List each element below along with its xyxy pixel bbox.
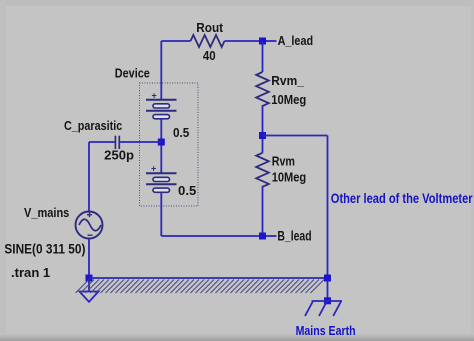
value 0.5 (top battery) (173, 125, 189, 140)
voltage source V_mains (sine) (76, 212, 103, 239)
directive SINE(0 311 50) (4, 241, 85, 256)
svg-text:C_parasitic: C_parasitic (64, 118, 122, 133)
value 10Meg (Rvm_) (271, 92, 306, 107)
svg-text:SINE(0 311 50): SINE(0 311 50) (4, 241, 85, 256)
svg-text:.tran 1: .tran 1 (11, 265, 50, 280)
svg-text:Rout: Rout (196, 20, 223, 35)
svg-text:250p: 250p (104, 148, 134, 163)
ground (80, 282, 99, 302)
node junction (voltmeter wire to earth bar) (324, 275, 331, 282)
node junction (mains earth) (324, 297, 331, 304)
svg-text:10Meg: 10Meg (272, 170, 307, 185)
wire (left vertical into Device) (160, 41, 162, 100)
value 250p (104, 148, 134, 163)
earth symbol (Mains Earth) (305, 301, 342, 316)
label A_lead (278, 33, 314, 48)
svg-text:Device: Device (115, 66, 150, 81)
svg-text:Other lead of the Voltmeter: Other lead of the Voltmeter (331, 191, 473, 206)
svg-text:+: + (151, 164, 156, 174)
wire (B_lead label stub) (266, 235, 277, 237)
node junction (between Rvm_ and Rvm) (259, 132, 266, 139)
wire (capacitor branch) (89, 142, 161, 212)
wire (earth bar top line) (89, 277, 328, 279)
device dotted box (140, 83, 199, 206)
wire (Device bottom to B_lead) (161, 192, 262, 236)
svg-text:Mains Earth: Mains Earth (296, 323, 356, 338)
resistor Rvm (256, 153, 269, 187)
svg-text:Rvm: Rvm (272, 153, 295, 168)
wire (voltmeter lead) (263, 136, 328, 301)
comment text: Mains Earth (296, 323, 356, 338)
svg-text:V_mains: V_mains (24, 205, 69, 220)
value 10Meg (Rvm) (272, 170, 307, 185)
capacitor C_parasitic (115, 136, 119, 149)
battery V1 (top cell of Device) (146, 91, 177, 119)
directive .tran 1 (11, 265, 50, 280)
label B_lead (277, 228, 311, 243)
svg-text:B_lead: B_lead (277, 228, 311, 243)
wire (A_lead to Rvm_ to junction) (262, 41, 264, 236)
label V_mains (24, 205, 69, 220)
label Rvm (272, 153, 295, 168)
svg-text:10Meg: 10Meg (271, 92, 306, 107)
label Rvm_ (271, 73, 304, 88)
svg-text:40: 40 (203, 48, 216, 63)
svg-text:0.5: 0.5 (178, 183, 196, 198)
comment text: Other lead of the Voltmeter (331, 191, 473, 206)
svg-text:0.5: 0.5 (173, 125, 189, 140)
label C_parasitic (64, 118, 122, 133)
svg-text:A_lead: A_lead (278, 33, 314, 48)
resistor R1 Rout (191, 35, 225, 47)
wire (A_lead label stub) (266, 40, 277, 42)
node junction (C_parasitic to batteries) (158, 139, 165, 146)
node B_lead junction (259, 233, 266, 240)
label Device (115, 66, 150, 81)
value 0.5 (bottom battery) (178, 183, 196, 198)
wire (between battery cells) (160, 119, 162, 174)
value 40 (203, 48, 216, 63)
node junction (V_mains to earth bar) (86, 275, 93, 282)
node A_lead junction (259, 38, 266, 45)
battery V2 (bottom cell of Device) (146, 164, 177, 193)
wire (V_mains to earth bar) (88, 238, 90, 278)
svg-text:Rvm_: Rvm_ (271, 73, 304, 88)
resistor Rvm_ (256, 72, 269, 106)
earth bar hatching (76, 280, 325, 294)
label Rout (196, 20, 223, 35)
wire (top, Rout branch) (161, 40, 262, 42)
